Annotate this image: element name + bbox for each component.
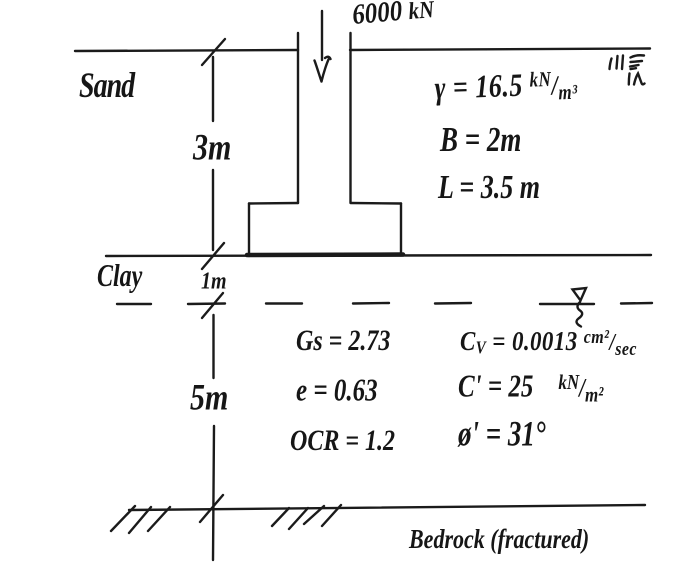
load arrowhead open V — [315, 57, 331, 82]
label OCR = 1.2 — [290, 425, 395, 459]
dimension line segment B (sand lower) — [212, 170, 214, 250]
label e = 0.63 — [296, 374, 378, 410]
label 5m — [190, 377, 228, 420]
label 1m — [201, 268, 227, 296]
label 3m — [193, 127, 231, 170]
water table triangle symbol — [573, 288, 587, 301]
footing top-left ledge — [249, 202, 298, 205]
scribble marks top right: triple horizontal strokes — [630, 55, 644, 69]
footing top-right ledge — [351, 202, 401, 205]
label 6000 kN — [351, 0, 435, 33]
dimension line segment D (clay lower) — [213, 426, 214, 560]
label Clay — [97, 260, 142, 296]
label Bedrock (fractured) — [409, 523, 589, 555]
tick at bedrock line — [200, 495, 223, 522]
scribble marks top right: three vertical strokes — [610, 56, 624, 70]
ground surface line left segment — [75, 50, 298, 51]
label gamma = 16.5 kN/m3 — [434, 65, 578, 107]
tick at water table line — [202, 293, 223, 318]
label phi' = 31 deg — [458, 413, 546, 455]
label L = 3.5m — [438, 168, 540, 207]
bedrock hatch right group — [272, 505, 341, 529]
ground surface line right segment — [350, 49, 650, 51]
label Sand — [79, 66, 134, 108]
bedrock hatch left group — [111, 506, 170, 533]
scribble marks top right: "in" strokes — [629, 74, 645, 85]
footing right side — [400, 204, 402, 256]
label C' = 25 kN/m2 — [458, 370, 603, 406]
dimension line segment A (sand) — [212, 57, 214, 121]
footing left side — [248, 204, 250, 257]
water table dashed line — [117, 303, 652, 304]
column left line — [297, 33, 299, 203]
clay boundary line — [106, 255, 651, 256]
tick at ground line — [202, 39, 225, 65]
footing base thick line — [247, 252, 403, 257]
load arrow shaft — [321, 11, 323, 60]
label Cv = 0.0013 cm2/sec — [460, 326, 637, 358]
dimension line segment C (clay upper) — [212, 315, 214, 378]
tick at clay line — [202, 243, 224, 269]
column right line — [349, 33, 351, 203]
label Gs = 2.73 — [296, 325, 390, 359]
water table squiggle — [577, 302, 583, 327]
label B = 2m — [440, 120, 521, 160]
bedrock line — [129, 505, 645, 510]
